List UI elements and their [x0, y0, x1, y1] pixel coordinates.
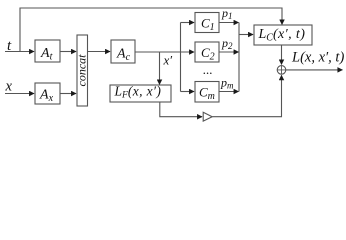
adder plus	[277, 66, 286, 75]
svg-text:...: ...	[203, 62, 213, 77]
wire: collecting bus	[238, 23, 240, 92]
box concat	[77, 35, 88, 106]
wire: p_1 output of C_1 into bus	[219, 22, 239, 24]
wire: A_x to concat	[60, 93, 76, 95]
box A_c	[111, 40, 135, 63]
svg-text:x: x	[5, 79, 13, 95]
wire: L_F output down to bottom rail	[160, 102, 202, 117]
wire: main A_c to C_2 through node x'	[135, 51, 194, 53]
box L_C	[254, 25, 312, 45]
wire: p_m output of C_m into bus	[219, 91, 239, 93]
wire: branch into C_m	[181, 91, 195, 93]
box C_m	[195, 82, 219, 103]
wire: top feedback from t to L_C	[20, 8, 282, 52]
wire: vertical branch to C_1 and C_m	[180, 23, 182, 92]
wire: p_2 output of C_2 into bus	[219, 51, 239, 53]
box L_F	[110, 85, 171, 102]
svg-text:LC(x′, t): LC(x′, t)	[258, 27, 306, 44]
wire: concat to A_c	[88, 51, 111, 53]
svg-text:p2: p2	[221, 36, 233, 51]
buffer triangle on bottom rail	[203, 112, 212, 121]
svg-text:concat: concat	[75, 54, 89, 87]
svg-text:L(x, x′, t): L(x, x′, t)	[291, 50, 344, 66]
wire: t input into A_t	[5, 51, 34, 53]
wire: bottom rail from buffer up into adder	[213, 75, 282, 116]
svg-text:x′: x′	[163, 53, 173, 68]
wire: A_t to concat	[60, 51, 76, 53]
wire: branch into C_1	[181, 22, 195, 24]
svg-text:pm: pm	[220, 76, 234, 91]
wire: node x' drop into L_F	[159, 52, 161, 84]
adder circle	[277, 66, 286, 75]
box A_x	[35, 83, 60, 104]
wire: bus into L_C	[239, 34, 253, 36]
wire: L_C output down into adder	[281, 45, 283, 65]
wire: adder output L(x,x',t)	[286, 69, 343, 71]
box C_1	[195, 13, 219, 33]
wire: x input into A_x	[5, 93, 34, 95]
box C_2	[195, 42, 219, 62]
svg-text:LF(x, x′): LF(x, x′)	[114, 84, 162, 101]
box A_t	[35, 40, 60, 62]
